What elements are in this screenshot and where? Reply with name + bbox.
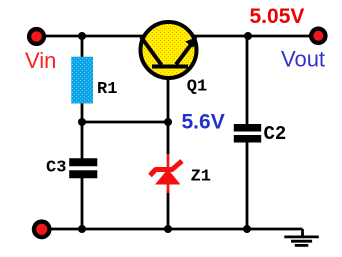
svg-text:5.6V: 5.6V xyxy=(182,111,225,134)
svg-text:Q1: Q1 xyxy=(187,78,207,97)
svg-text:C2: C2 xyxy=(264,123,287,145)
svg-text:Z1: Z1 xyxy=(191,168,211,187)
svg-text:C3: C3 xyxy=(46,159,66,178)
svg-text:5.05V: 5.05V xyxy=(250,5,305,28)
svg-text:Vout: Vout xyxy=(281,47,325,72)
svg-text:Vin: Vin xyxy=(25,48,56,73)
svg-text:R1: R1 xyxy=(97,80,117,99)
